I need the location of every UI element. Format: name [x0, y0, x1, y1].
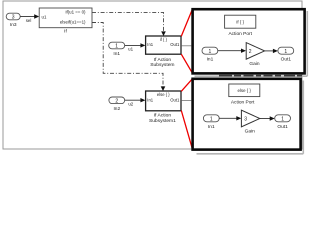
svg-text:3: 3: [12, 15, 15, 21]
svg-text:2: 2: [249, 49, 252, 55]
If block: [39, 8, 92, 35]
svg-text:elseif(u1==1): elseif(u1==1): [60, 20, 86, 25]
svg-text:1: 1: [115, 44, 118, 50]
svg-text:if { }: if { }: [160, 37, 168, 42]
outport Out1 (panel 2): [275, 115, 291, 122]
svg-text:If Action: If Action: [154, 113, 172, 119]
svg-text:else { }: else { }: [237, 88, 251, 93]
svg-text:3: 3: [244, 117, 247, 123]
svg-text:if(u1 == 0): if(u1 == 0): [65, 9, 86, 14]
gain triangle (2): [246, 43, 264, 60]
wire Gain to Out1: [260, 118, 271, 120]
svg-text:Action Port: Action Port: [231, 99, 255, 105]
svg-text:2: 2: [115, 98, 118, 104]
callout panel 1: [193, 9, 305, 73]
inport In3: [6, 13, 20, 28]
red callout lines panel 1: [181, 9, 192, 73]
inport In1 (panel 2): [203, 115, 219, 122]
svg-text:u1: u1: [42, 15, 47, 20]
wire elseif action (dash-dot): [92, 23, 165, 92]
red callout lines panel 2: [181, 79, 192, 150]
svg-text:u1: u1: [128, 47, 133, 52]
wire out stub subsystem1: [181, 100, 191, 102]
action port block (if): [225, 15, 256, 28]
inport In2: [109, 97, 125, 112]
svg-text:Gain: Gain: [249, 61, 259, 67]
svg-text:1: 1: [284, 49, 287, 55]
svg-text:Out1: Out1: [170, 42, 180, 47]
svg-text:In1: In1: [207, 56, 214, 62]
wire In1 to Gain: [218, 50, 243, 52]
svg-text:1: 1: [209, 49, 212, 55]
wire u1: [125, 43, 146, 51]
subsystem If Action Subsystem1: [146, 91, 181, 124]
svg-text:sel: sel: [26, 18, 32, 23]
svg-text:In1: In1: [113, 51, 120, 57]
inport In1 (panel 1): [202, 47, 218, 54]
svg-text:1: 1: [210, 117, 213, 123]
svg-text:Out1: Out1: [281, 56, 292, 62]
svg-text:In1: In1: [208, 124, 215, 130]
svg-text:1: 1: [281, 117, 284, 123]
svg-text:u2: u2: [128, 101, 133, 106]
callout panel 2: [193, 79, 301, 150]
svg-text:Subsystem1: Subsystem1: [149, 118, 176, 124]
wire out stub subsystem: [181, 45, 191, 47]
wire if action (dash-dot): [92, 12, 166, 36]
wire sel: [20, 14, 39, 22]
wire Gain to Out1: [265, 50, 275, 52]
panel 2 shadow: [197, 81, 304, 154]
subsystem If Action Subsystem: [146, 36, 181, 68]
svg-text:Action Port: Action Port: [228, 31, 252, 37]
gain triangle (3): [241, 110, 259, 127]
svg-text:In1: In1: [147, 42, 153, 47]
outport Out1 (panel 1): [278, 47, 294, 54]
svg-text:Out1: Out1: [277, 124, 288, 130]
wire In1 to Gain: [219, 117, 238, 119]
svg-text:if { }: if { }: [236, 20, 244, 25]
action port block (else): [229, 84, 260, 97]
svg-text:Gain: Gain: [245, 129, 255, 135]
panel 1 shadow: [195, 11, 308, 76]
svg-text:Subsystem: Subsystem: [150, 62, 174, 68]
text sliver between panels: [219, 75, 302, 77]
svg-text:In2: In2: [113, 106, 120, 112]
inport In1: [109, 42, 125, 57]
wire u2: [125, 98, 146, 106]
svg-text:In1: In1: [147, 97, 153, 102]
svg-text:else { }: else { }: [157, 92, 170, 97]
svg-text:In3: In3: [10, 22, 17, 28]
svg-text:Out1: Out1: [170, 97, 180, 102]
